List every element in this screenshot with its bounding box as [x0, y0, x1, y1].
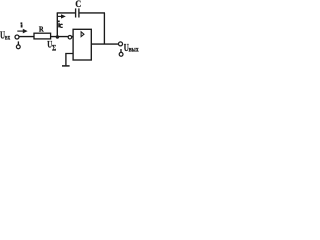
op-amp body: [73, 29, 91, 60]
wire input horizontal: [19, 36, 73, 38]
wire feedback top left: [57, 12, 75, 14]
junction node dot: [56, 35, 59, 38]
svg-text:вх: вх: [5, 33, 11, 41]
ground bar: [62, 65, 70, 67]
stub input lower terminal: [17, 41, 19, 45]
wire output horizontal: [91, 43, 118, 45]
svg-text:вых: вых: [129, 46, 140, 54]
resistor R body: [34, 33, 51, 39]
label i (input current): [21, 22, 23, 27]
arrow current i: [17, 29, 27, 34]
terminal input lower: [16, 45, 20, 49]
label i_c: [58, 21, 60, 28]
wire feedback left vertical: [56, 13, 58, 37]
wire op-amp noninverting input to common: [66, 54, 73, 66]
op-amp gain triangle: [81, 32, 84, 37]
svg-text:R: R: [39, 25, 44, 34]
terminal output lower: [119, 52, 123, 56]
wire feedback right vertical: [103, 13, 105, 44]
node U_sigma circle: [68, 35, 72, 39]
capacitor C plates: [76, 8, 79, 17]
svg-text:C: C: [75, 0, 81, 9]
arrow current i_c: [58, 14, 66, 18]
terminal input upper: [15, 35, 19, 39]
terminal output upper: [119, 42, 123, 46]
wire feedback top right: [79, 12, 105, 14]
stub output lower terminal: [120, 49, 122, 52]
svg-text:Σ: Σ: [52, 42, 56, 52]
